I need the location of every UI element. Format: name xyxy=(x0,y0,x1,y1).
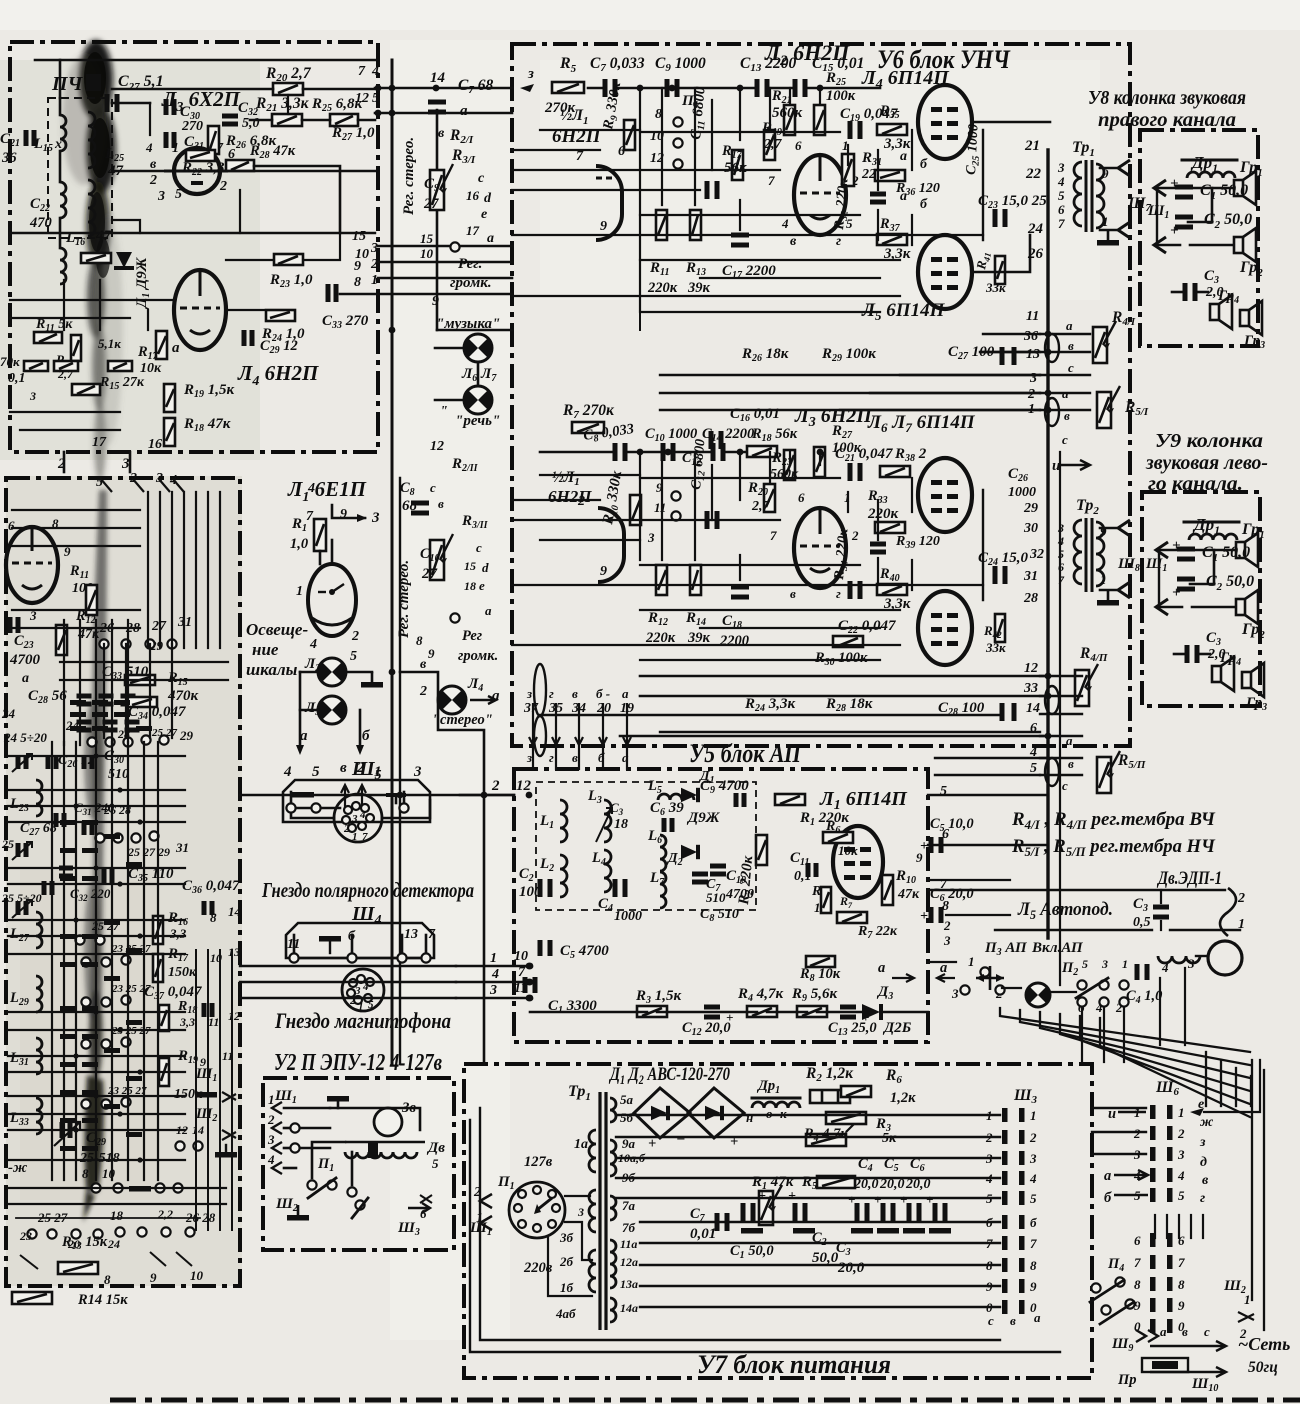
capacitor C21 0047 xyxy=(835,446,893,481)
svg-text:20,0: 20,0 xyxy=(837,1260,865,1276)
svg-text:9: 9 xyxy=(600,219,607,234)
svg-text:12: 12 xyxy=(430,439,444,454)
svg-text:Л4 6П14П: Л4 6П14П xyxy=(861,67,950,92)
svg-text:го канала.: го канала. xyxy=(1148,473,1243,495)
svg-text:9: 9 xyxy=(600,564,607,579)
label stereo xyxy=(432,712,493,728)
svg-text:2: 2 xyxy=(1027,387,1035,402)
svg-text:2: 2 xyxy=(943,918,951,933)
wire U1-U6 y113 xyxy=(375,110,512,117)
svg-text:7: 7 xyxy=(1178,1255,1185,1270)
svg-text:правого канала: правого канала xyxy=(1098,109,1236,131)
svg-text:"речь": "речь" xyxy=(455,413,500,429)
svg-text:3: 3 xyxy=(121,456,130,472)
svg-text:12: 12 xyxy=(516,778,532,794)
resistor R17 56k xyxy=(721,143,747,180)
wire vertical x400 xyxy=(399,478,401,1064)
tube L6 output xyxy=(918,458,972,532)
pot R2/I R3/I xyxy=(430,126,476,210)
wire fan right verticals xyxy=(1155,1052,1264,1330)
svg-text:6: 6 xyxy=(1134,1233,1141,1248)
gnd row u7 xyxy=(741,1228,951,1234)
svg-text:18: 18 xyxy=(110,1208,124,1223)
svg-text:20,0: 20,0 xyxy=(853,1177,879,1192)
connector Sh5 circle xyxy=(334,794,382,843)
capacitor C8 0033 xyxy=(582,421,635,461)
svg-text:3б: 3б xyxy=(559,1230,574,1245)
resistor R1 220k u5 xyxy=(775,794,849,828)
svg-text:в: в xyxy=(420,657,427,672)
cable oval 4 xyxy=(1045,758,1059,786)
capacitor C8 510 u5 xyxy=(700,907,739,924)
wire low row xyxy=(540,451,745,454)
svg-text:24: 24 xyxy=(1,706,16,721)
svg-text:г: г xyxy=(836,586,841,601)
resistor R15 470k xyxy=(127,670,199,707)
svg-text:8: 8 xyxy=(942,899,949,914)
svg-text:с: с xyxy=(1068,360,1074,375)
svg-text:8: 8 xyxy=(1178,1277,1185,1292)
wire fan right xyxy=(1092,1060,1260,1154)
pins low tri xyxy=(770,490,859,601)
svg-text:11: 11 xyxy=(654,500,666,515)
svg-text:2: 2 xyxy=(356,760,365,776)
labels left u1 xyxy=(0,354,36,403)
svg-text:70к: 70к xyxy=(0,354,20,369)
speaker Gr4 U9 xyxy=(1212,650,1241,691)
svg-text:10: 10 xyxy=(190,1268,204,1283)
svg-text:33к: 33к xyxy=(985,640,1006,655)
ground tuner right xyxy=(215,1145,237,1158)
tube L7 output xyxy=(918,591,972,665)
connector Sh1 u2 xyxy=(267,1088,297,1174)
svg-text:29: 29 xyxy=(179,728,194,743)
svg-text:4700: 4700 xyxy=(9,652,41,668)
svg-text:6: 6 xyxy=(795,138,802,153)
svg-text:4: 4 xyxy=(781,216,789,231)
svg-text:к: к xyxy=(780,1106,787,1121)
choke Dr1 U8 xyxy=(1182,153,1237,178)
svg-text:8: 8 xyxy=(82,1166,89,1181)
svg-text:32: 32 xyxy=(1029,547,1044,562)
rings row1 xyxy=(99,639,176,648)
svg-text:+: + xyxy=(648,1136,656,1152)
wire if vert xyxy=(59,98,62,248)
svg-text:5: 5 xyxy=(175,187,182,202)
pot R4/II xyxy=(1075,645,1108,706)
block U7 power border xyxy=(464,1064,1092,1378)
jack Sh3 u2 xyxy=(397,1195,432,1238)
resistor R41 33k xyxy=(973,251,1006,295)
svg-text:д: д xyxy=(1200,1155,1207,1170)
tr1 u7 secondary xyxy=(610,1092,646,1322)
motor Dv u2 xyxy=(345,1140,445,1171)
svg-text:24: 24 xyxy=(1027,221,1044,237)
resistor R4 47k u5 xyxy=(737,986,784,1017)
diode D2 u5 xyxy=(666,845,698,868)
svg-text:н: н xyxy=(746,1110,753,1125)
wire P1 to Tr1 xyxy=(548,1196,592,1296)
capacitor C11 6800 xyxy=(688,85,717,199)
svg-text:14: 14 xyxy=(1026,701,1040,716)
rings row3 xyxy=(95,831,189,859)
svg-text:8: 8 xyxy=(354,275,361,290)
resistor R5 270k xyxy=(544,55,584,116)
u6 long lines to pots xyxy=(660,375,1040,410)
resistor R19 27 xyxy=(761,120,783,160)
lamp L3 xyxy=(304,696,346,724)
svg-text:6: 6 xyxy=(942,827,949,842)
svg-text:R1 220к: R1 220к xyxy=(799,810,849,828)
svg-text:13а: 13а xyxy=(620,1277,638,1291)
label Sh5 xyxy=(351,758,382,783)
wire u1 g4 xyxy=(64,220,140,330)
cable oval 1 xyxy=(1045,334,1059,362)
capacitor C3 18 u5 xyxy=(610,800,628,832)
svg-text:R4/I , R4/П рег.тембра ВЧ: R4/I , R4/П рег.тембра ВЧ xyxy=(1011,809,1216,832)
svg-text:3: 3 xyxy=(943,933,951,948)
wires u6 low out xyxy=(860,676,1040,736)
tr1 u7 primary xyxy=(555,1130,596,1321)
bridge2 xyxy=(688,1088,744,1150)
svg-text:29: 29 xyxy=(1023,501,1038,516)
pins tube L3 xyxy=(145,140,235,204)
capacitor C27 68 xyxy=(20,813,64,838)
svg-text:С29 12: С29 12 xyxy=(260,338,298,356)
resistor R18 33 xyxy=(159,999,197,1031)
sh6 arrows xyxy=(1104,1106,1204,1206)
labels R24 R28 xyxy=(744,696,873,714)
block U1 IF-unit border xyxy=(10,42,378,452)
svg-text:в: в xyxy=(1068,338,1074,353)
svg-text:3: 3 xyxy=(157,189,165,204)
svg-text:б: б xyxy=(1030,1215,1037,1230)
wires U9 spk xyxy=(1156,542,1234,654)
lamp rech xyxy=(440,386,500,429)
wires U8 spk xyxy=(1154,180,1232,292)
svg-text:1000: 1000 xyxy=(1008,485,1036,500)
title U2 EPU xyxy=(274,1050,442,1076)
title U5 block xyxy=(689,739,802,768)
svg-text:4: 4 xyxy=(145,140,153,155)
svg-text:R13 15к: R13 15к xyxy=(61,1234,108,1252)
coil L4 u5 xyxy=(591,850,611,892)
svg-text:36: 36 xyxy=(1023,329,1038,344)
svg-text:а: а xyxy=(22,671,29,686)
title tape socket xyxy=(274,1008,451,1033)
svg-text:С14 2200: С14 2200 xyxy=(702,426,754,444)
wire u1 g2 xyxy=(112,95,288,233)
svg-text:Д9Ж: Д9Ж xyxy=(686,810,721,826)
coil L31 xyxy=(9,1038,42,1074)
tube L1 6E1P eye xyxy=(308,564,356,636)
svg-text:1: 1 xyxy=(1122,957,1128,971)
resistor R20 2,7 xyxy=(265,65,312,95)
wire R28 to edge xyxy=(254,166,340,233)
svg-text:+: + xyxy=(848,1192,855,1207)
labels a v c pot4 xyxy=(1062,733,1074,793)
svg-text:6: 6 xyxy=(798,490,805,505)
svg-text:3: 3 xyxy=(29,389,36,403)
svg-text:3: 3 xyxy=(647,530,655,545)
svg-text:а: а xyxy=(485,603,492,618)
svg-text:б: б xyxy=(920,157,928,172)
svg-text:12: 12 xyxy=(355,91,369,106)
wire out to tr1 xyxy=(972,122,1050,272)
svg-text:У5 блок АП: У5 блок АП xyxy=(689,739,802,768)
svg-text:d: d xyxy=(484,191,492,206)
trimmer cap 1 xyxy=(3,730,47,772)
pot R5/I xyxy=(1097,386,1149,428)
tube L3 6X2P xyxy=(164,148,228,194)
svg-text:8: 8 xyxy=(1134,1277,1141,1292)
svg-text:з: з xyxy=(526,686,532,701)
label c v a sh3 xyxy=(988,1310,1041,1328)
wire u5 in xyxy=(460,794,514,797)
jack Sh2 tuner xyxy=(195,1106,236,1140)
res row u1b xyxy=(24,361,132,371)
svg-text:+: + xyxy=(1170,176,1179,192)
svg-text:в: в xyxy=(790,586,796,601)
wire u1 row89 xyxy=(112,88,375,91)
pot R4/I xyxy=(1093,309,1136,363)
block U5 AP border xyxy=(514,769,928,1042)
svg-text:2: 2 xyxy=(491,778,500,794)
capacitor C30 510 xyxy=(84,748,129,782)
svg-text:R14 15к: R14 15к xyxy=(77,1292,128,1308)
tube half L1b xyxy=(577,494,655,582)
capacitor C31 240 xyxy=(74,800,131,835)
svg-text:−: − xyxy=(676,1131,685,1148)
resistor R39 120 xyxy=(875,522,940,551)
switch P1 u2 xyxy=(307,1156,356,1198)
svg-text:1: 1 xyxy=(358,1001,364,1013)
svg-text:9а: 9а xyxy=(622,1136,636,1151)
wire motor leads xyxy=(928,890,1225,956)
capacitor C19 0047 xyxy=(840,106,898,139)
svg-text:25 5÷20: 25 5÷20 xyxy=(1,891,42,905)
svg-text:25-518: 25-518 xyxy=(79,1151,120,1166)
svg-text:7: 7 xyxy=(1134,1255,1141,1270)
capacitor C7 510 u5 xyxy=(692,874,726,905)
block U6 UNCh border xyxy=(512,44,1130,746)
motor circle xyxy=(1208,941,1242,975)
svg-text:9: 9 xyxy=(1030,1279,1037,1294)
svg-text:7: 7 xyxy=(770,528,777,543)
svg-text:С7 68: С7 68 xyxy=(458,77,493,96)
svg-text:R28 47к: R28 47к xyxy=(249,143,296,161)
cable oval mid1 xyxy=(534,664,546,716)
label tube L3 6X2P xyxy=(161,87,241,115)
svg-text:14а: 14а xyxy=(620,1301,638,1315)
wire sh4 links xyxy=(294,935,426,952)
svg-text:Гнездо полярного детектора: Гнездо полярного детектора xyxy=(261,878,474,902)
capacitor C2 500 U8 xyxy=(1170,211,1252,239)
scan smudge top xyxy=(62,40,123,482)
label 24 xyxy=(65,718,80,733)
svg-text:а: а xyxy=(900,149,907,164)
coil L23 xyxy=(9,780,42,816)
wire mid verticals xyxy=(252,795,392,1286)
svg-text:12: 12 xyxy=(228,1009,240,1023)
capacitor C22 0047 xyxy=(838,581,896,636)
label i arrow xyxy=(1052,458,1090,474)
svg-text:Пр: Пр xyxy=(1117,1372,1137,1388)
coil L2 u5 xyxy=(539,855,567,897)
svg-text:18: 18 xyxy=(464,579,476,593)
resistor R17 10k xyxy=(137,331,167,376)
label reg stereo mid xyxy=(396,560,412,638)
label osveshchenie xyxy=(246,620,308,679)
svg-text:2: 2 xyxy=(267,1112,275,1127)
svg-text:39к: 39к xyxy=(687,630,711,646)
svg-text:3: 3 xyxy=(1101,957,1108,971)
svg-text:Д2Б: Д2Б xyxy=(882,1020,912,1036)
capacitor C3 2,0 U9 xyxy=(1187,630,1226,663)
capacitor C17 2200 xyxy=(722,235,776,281)
svg-text:17: 17 xyxy=(466,223,480,238)
lamp AP xyxy=(1026,983,1050,1007)
motor arcs xyxy=(1220,888,1236,936)
svg-text:4аб: 4аб xyxy=(555,1306,576,1321)
svg-text:С16 0,01: С16 0,01 xyxy=(730,406,780,424)
svg-text:23: 23 xyxy=(19,1229,32,1243)
svg-text:50гц: 50гц xyxy=(1248,1359,1278,1376)
svg-text:С6 39: С6 39 xyxy=(650,800,684,818)
capacitor C9 27 xyxy=(423,176,439,212)
svg-text:Рег. стерео.: Рег. стерео. xyxy=(396,560,412,638)
transformer Tr1 xyxy=(1057,139,1109,232)
svg-text:31: 31 xyxy=(1023,569,1038,584)
svg-text:3: 3 xyxy=(1187,956,1195,971)
junction dots bus xyxy=(389,85,1052,1002)
svg-text:3: 3 xyxy=(489,983,497,998)
svg-text:0,5: 0,5 xyxy=(1133,915,1151,930)
pot R3/II xyxy=(430,496,489,580)
dashed tuning box xyxy=(536,782,756,910)
svg-text:220к: 220к xyxy=(645,630,676,646)
svg-text:Дв.ЭДП-1: Дв.ЭДП-1 xyxy=(1156,868,1222,889)
svg-text:12: 12 xyxy=(1024,661,1038,676)
capacitor C12 200 u5 xyxy=(682,1007,733,1038)
svg-text:С9 1000: С9 1000 xyxy=(655,55,706,74)
svg-text:4: 4 xyxy=(283,764,292,780)
svg-text:1: 1 xyxy=(968,954,975,969)
labels 26 28 27 31 xyxy=(99,615,192,653)
connector Sh6 xyxy=(1133,1079,1185,1334)
svg-text:9: 9 xyxy=(1100,524,1107,539)
label 1/2L1 low xyxy=(548,469,592,506)
svg-text:шкалы: шкалы xyxy=(246,660,298,679)
resistor R17 150k xyxy=(153,945,240,982)
resistor R25 100k xyxy=(814,70,856,135)
wire u1 g3 xyxy=(226,233,340,310)
cable oval 3 xyxy=(1045,686,1059,714)
svg-text:2,7: 2,7 xyxy=(751,499,771,514)
label Dv EDP xyxy=(1156,868,1222,889)
svg-text:R26 18к: R26 18к xyxy=(741,346,789,364)
svg-text:39к: 39к xyxy=(687,280,711,296)
resistor R11 100 xyxy=(69,563,97,615)
capacitor C5 100 u5 xyxy=(920,816,974,854)
resistor R40 33k xyxy=(877,566,911,612)
capacitor C22 470 xyxy=(29,180,95,236)
resistor R11 220k xyxy=(647,210,678,296)
bus vertical x1048 xyxy=(1046,150,1049,938)
svg-text:3: 3 xyxy=(577,1205,584,1219)
resistor R36 120 xyxy=(875,170,940,198)
svg-text:R15 27к: R15 27к xyxy=(99,375,145,392)
svg-text:14: 14 xyxy=(430,70,446,86)
svg-text:3: 3 xyxy=(413,764,422,780)
svg-text:Вкл.АП: Вкл.АП xyxy=(1031,940,1084,956)
svg-text:С7 0,033: С7 0,033 xyxy=(590,55,645,74)
svg-text:10к: 10к xyxy=(838,843,858,858)
resistor R13 15k xyxy=(58,1234,204,1287)
svg-text:R4 4,7к: R4 4,7к xyxy=(803,1126,848,1144)
tuner diag hatch xyxy=(20,1188,192,1269)
svg-text:з: з xyxy=(1199,1135,1206,1150)
coil L7 u5 xyxy=(649,870,666,908)
svg-text:R27 1,0: R27 1,0 xyxy=(331,125,375,143)
svg-text:а: а xyxy=(622,686,629,701)
svg-text:8: 8 xyxy=(416,633,423,648)
svg-text:в: в xyxy=(1202,1173,1209,1188)
capacitor C15 001 xyxy=(795,55,864,97)
u6 grid upper h xyxy=(512,130,983,312)
resistor R2 12k u7 xyxy=(805,1065,854,1103)
u2 rings xyxy=(290,1123,299,1152)
capacitor C9 1000 xyxy=(655,55,706,97)
svg-text:+: + xyxy=(1170,223,1179,239)
wire u2 in xyxy=(284,1108,330,1168)
trimmer cap 3 xyxy=(1,891,42,918)
svg-text:+: + xyxy=(758,1189,766,1204)
resistor R20 27 xyxy=(747,480,775,514)
svg-text:б: б xyxy=(920,197,928,212)
svg-text:R28 18к: R28 18к xyxy=(825,696,873,714)
bridge1 xyxy=(634,1088,690,1152)
svg-text:громк.: громк. xyxy=(458,648,498,664)
rings row5 xyxy=(81,983,151,1007)
svg-text:1,0: 1,0 xyxy=(290,536,308,552)
label 51k xyxy=(98,336,121,351)
resistor R25 6,8k xyxy=(311,96,363,126)
sh6 letters xyxy=(1198,1097,1214,1206)
resistor R1 47k u7 xyxy=(751,1174,794,1225)
svg-text:12а: 12а xyxy=(620,1255,638,1269)
capacitor C25 1000 xyxy=(964,124,984,240)
resistor R5 1 u5 xyxy=(811,884,831,915)
wire lamps L2L3 xyxy=(296,672,383,755)
labels a v c pot1 xyxy=(1066,318,1074,375)
capacitor C28 100 xyxy=(938,700,1014,721)
u6 grid lower v xyxy=(640,452,912,590)
jack Sh1 tuner xyxy=(195,1066,236,1102)
resistor R10 330k low xyxy=(600,469,641,527)
svg-text:R3 1,5к: R3 1,5к xyxy=(635,988,682,1006)
capacitor C10 1000 xyxy=(645,426,697,461)
capacitor C26 1000 xyxy=(983,466,1036,600)
capacitor C24 150 xyxy=(978,550,1029,584)
bus wires right1 xyxy=(980,334,1090,410)
svg-text:"стерео": "стерео" xyxy=(432,712,493,728)
lamp L6L7 musyka xyxy=(436,316,500,384)
svg-text:R8 10к: R8 10к xyxy=(799,966,841,984)
capacitor C11 01 u5 xyxy=(790,850,816,884)
svg-text:0,1: 0,1 xyxy=(8,371,26,386)
capacitor C6 39 u5 xyxy=(650,800,684,832)
